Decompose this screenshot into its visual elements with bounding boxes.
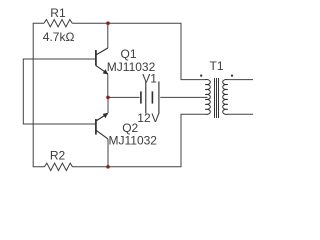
svg-text:R1: R1 (50, 6, 66, 20)
svg-text:R2: R2 (50, 148, 66, 162)
svg-text:MJ11032: MJ11032 (109, 134, 158, 148)
svg-text:V1: V1 (142, 71, 157, 85)
svg-text:4.7kΩ: 4.7kΩ (43, 30, 75, 44)
svg-text:T1: T1 (210, 59, 224, 73)
svg-text:Q1: Q1 (121, 47, 137, 61)
svg-text:12: 12 (137, 111, 151, 125)
svg-text:V: V (151, 111, 159, 125)
